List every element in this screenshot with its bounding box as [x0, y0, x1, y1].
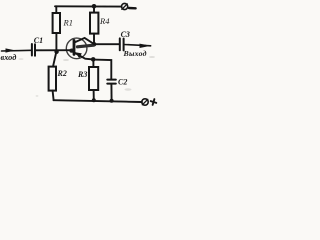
wire: R1 top lead: [55, 6, 57, 13]
wire: input lead: [2, 49, 32, 52]
label: plus sign of supply: [150, 98, 157, 105]
wire: bottom supply rail: [54, 100, 142, 102]
node: base junction dot: [54, 50, 58, 54]
capacitor C3 (left plate): [119, 38, 121, 50]
transistor collector smudge: [78, 45, 94, 47]
svg-text:R2: R2: [57, 69, 67, 78]
capacitor C2 (top plate): [107, 79, 116, 81]
node: junction of R4 with top rail: [92, 4, 97, 9]
wire: R2 bottom lead: [53, 91, 54, 101]
wire: R4 top lead: [93, 7, 95, 13]
arrow: input arrowhead: [6, 48, 16, 52]
resistor R2: [49, 67, 56, 91]
terminal: negative supply (top right): [122, 3, 128, 9]
node: emitter junction dot: [91, 57, 96, 62]
arrow: emitter arrowhead (points to base, PNP): [75, 52, 82, 58]
transistor body circle: [66, 38, 87, 59]
wire: R4 bottom lead to collector node: [93, 34, 95, 45]
capacitor C2 (bottom plate): [107, 83, 116, 85]
transistor emitter lead: [74, 52, 93, 59]
terminal: positive supply (bottom right): [142, 99, 148, 105]
wire: slash through positive terminal: [142, 99, 148, 105]
transistor base junction blob: [69, 49, 74, 53]
transistor base bar: [73, 40, 76, 54]
wire: C1 to transistor base: [35, 49, 73, 51]
transistor VT1 (PNP): [66, 38, 94, 60]
svg-text:С1: С1: [34, 36, 43, 45]
svg-text:вход: вход: [1, 53, 17, 62]
wire: slash through negative terminal: [122, 4, 128, 9]
svg-text:Выход: Выход: [123, 49, 147, 58]
capacitor C3 (right plate): [123, 39, 125, 51]
wire: collector node to C3: [94, 43, 120, 45]
resistor R4: [90, 13, 98, 34]
capacitor C1 (right plate): [34, 44, 36, 56]
wire: R3 top lead: [92, 60, 94, 68]
arrow: output arrowhead: [140, 44, 152, 48]
node: C2 to bottom rail junction dot: [110, 99, 114, 103]
scan noise (decorative): [19, 56, 156, 97]
wire: emitter node right then down to C2: [93, 60, 111, 79]
wire: output lead: [124, 45, 151, 46]
resistor R1: [53, 13, 60, 33]
svg-text:С2: С2: [118, 78, 127, 87]
transistor collector lead: [74, 38, 94, 44]
svg-text:С3: С3: [121, 30, 130, 39]
node: collector junction dot: [92, 42, 97, 47]
label: minus sign of supply: [129, 7, 136, 10]
wire: R1 bottom lead down through base node to R2: [55, 33, 57, 52]
svg-text:R3: R3: [77, 70, 87, 79]
wire: C2 bottom lead: [110, 84, 112, 101]
wire: base node down to R2 top: [53, 52, 56, 67]
node: R3 to bottom rail junction dot: [92, 98, 96, 102]
wire: R3 bottom lead: [93, 90, 95, 100]
svg-text:R4: R4: [99, 16, 110, 26]
capacitor C1 (left plate): [31, 44, 33, 56]
wire: top supply rail: [55, 5, 121, 7]
resistor R3: [89, 67, 98, 90]
svg-text:R1: R1: [63, 18, 73, 28]
